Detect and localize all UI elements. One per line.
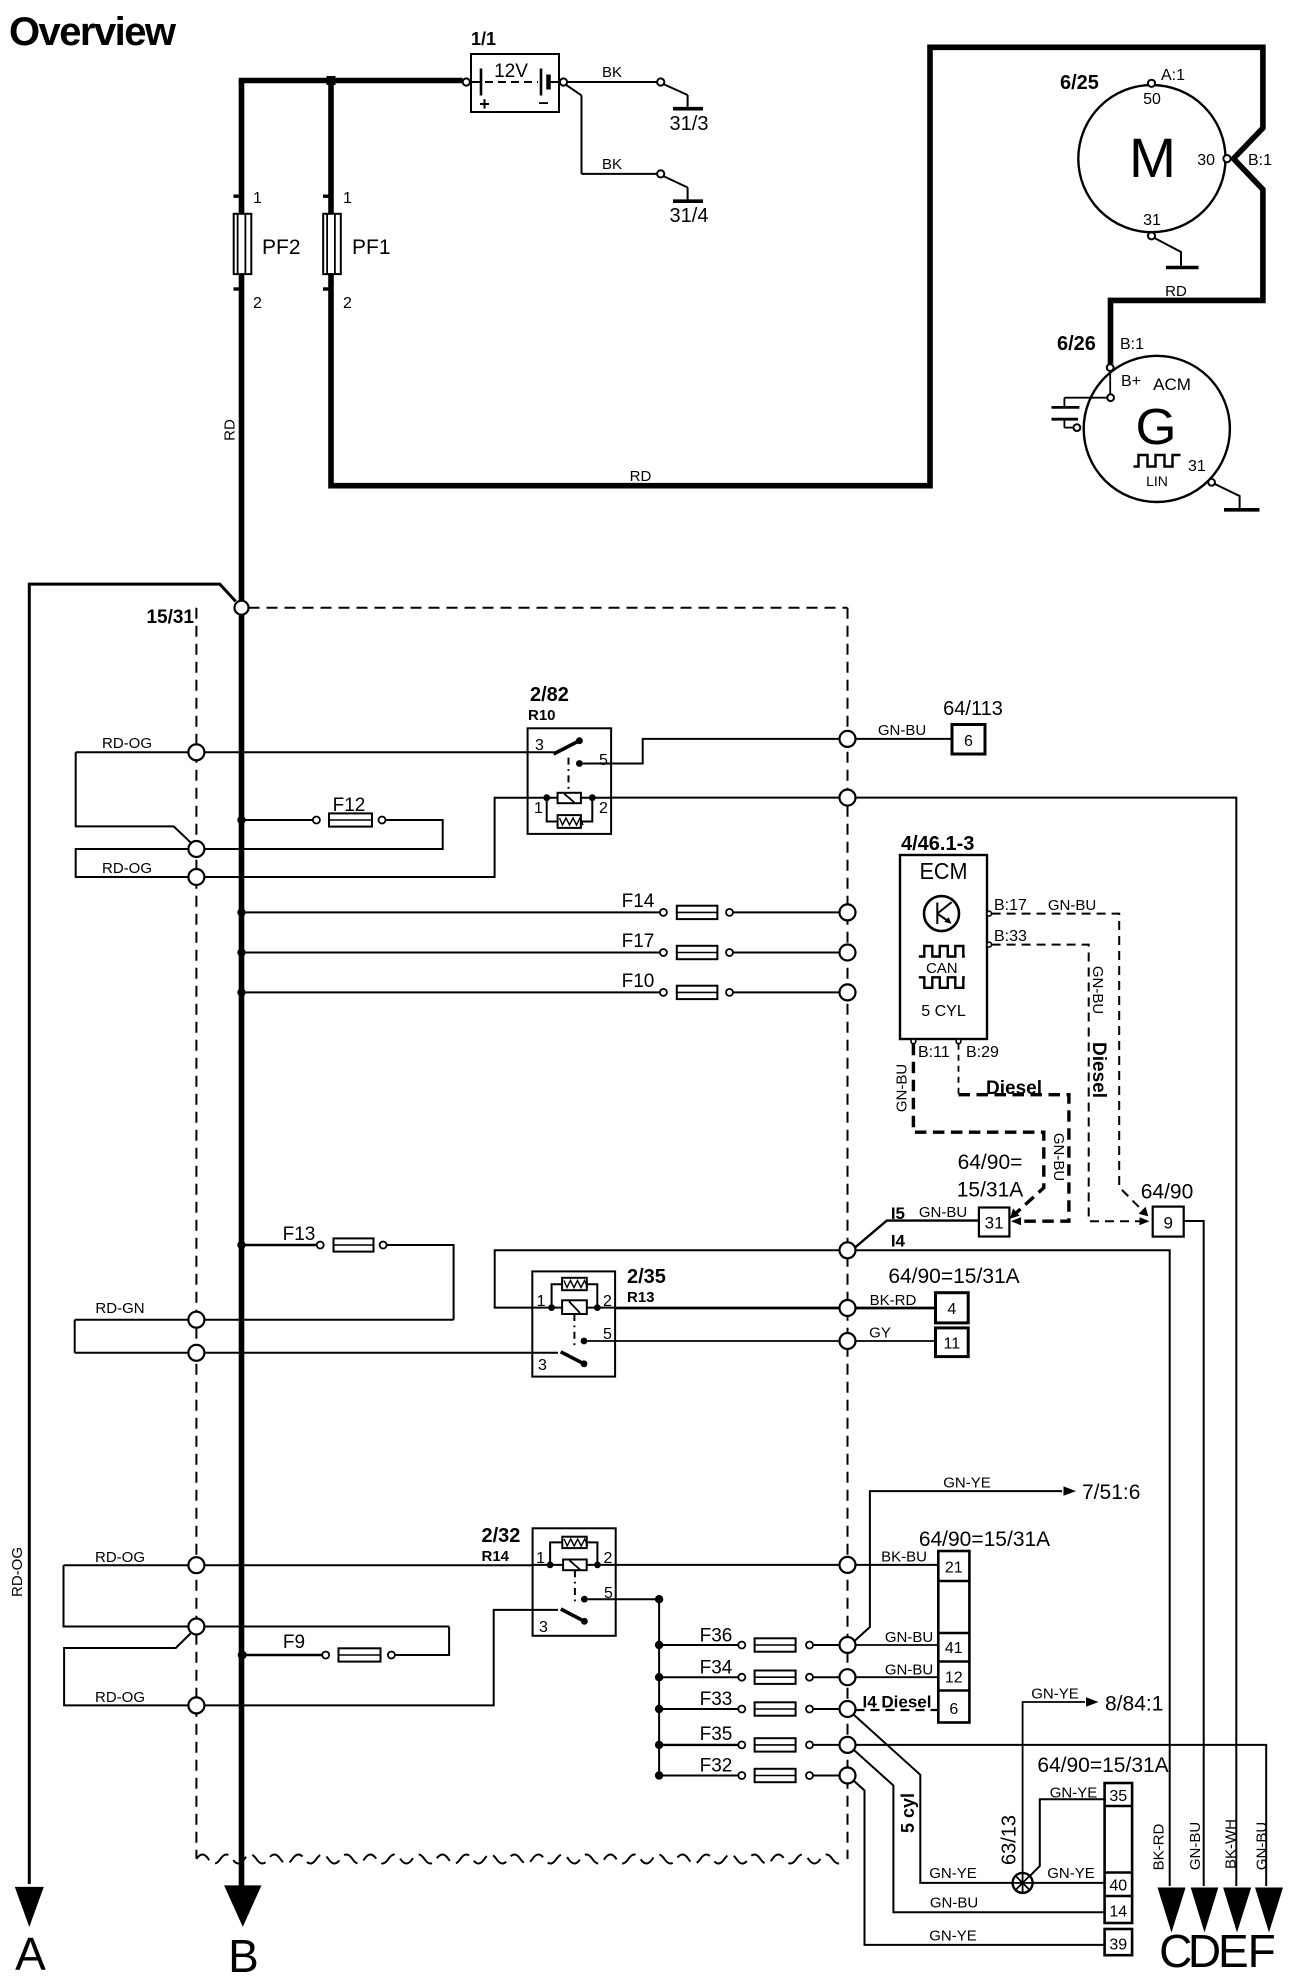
svg-text:A: A: [15, 1928, 46, 1980]
generator terminal B:1: [1107, 364, 1114, 371]
ECM CAN square wave upper: [919, 946, 965, 957]
wire relay 2/35 pin1 feed: [495, 1250, 840, 1307]
motor terminal 31: [1148, 232, 1155, 239]
node circle RD-OG lower2 on bus: [188, 1697, 204, 1713]
relay 2/82 pin 1: [528, 797, 558, 799]
svg-text:3: 3: [535, 737, 544, 754]
svg-text:GN-YE: GN-YE: [943, 1475, 991, 1492]
arrow E: [1223, 1888, 1251, 1933]
relay 2/35 actuation dash-dot: [573, 1314, 575, 1346]
wire 64/90 pin 9 to D arrow: [1184, 1221, 1204, 1886]
wire F13 feed: [242, 1244, 317, 1246]
wire GN-YE splice to connector 40: [1033, 1882, 1105, 1884]
svg-text:LIN: LIN: [1146, 473, 1168, 489]
svg-text:6/25: 6/25: [1060, 72, 1099, 94]
svg-text:15/31: 15/31: [146, 607, 194, 628]
relay 2/32 coil: [563, 1560, 587, 1571]
svg-text:F33: F33: [700, 1689, 733, 1710]
connector 64/90 pin 9: [1153, 1207, 1184, 1237]
svg-text:31: 31: [985, 1214, 1004, 1233]
node circle F32 on bus: [840, 1768, 856, 1784]
relay 2/32 actuation dash-dot: [574, 1570, 576, 1603]
generator battery symbol (ACM supply): [1064, 397, 1107, 399]
svg-text:BK-RD: BK-RD: [870, 1292, 917, 1309]
wire F9 return middle: [204, 1626, 449, 1628]
wire F9 return: [395, 1627, 449, 1656]
relay 2/82 parallel resistor: [547, 798, 593, 822]
svg-text:12: 12: [945, 1670, 963, 1687]
svg-text:RD-GN: RD-GN: [95, 1300, 144, 1317]
node circle F36 on bus: [840, 1637, 856, 1653]
svg-text:RD: RD: [630, 468, 652, 485]
ECM pin B:11: [911, 1039, 916, 1044]
svg-text:GN-YE: GN-YE: [929, 1865, 977, 1882]
wire relay 2/82 pin 2 to E arrow: [611, 798, 1236, 1886]
wire fuse stack tap vertical: [658, 1599, 660, 1775]
wire F35 to F arrow: [856, 1745, 1267, 1886]
arrow C: [1158, 1888, 1186, 1933]
svg-text:2/35: 2/35: [627, 1266, 666, 1288]
svg-text:R13: R13: [627, 1289, 655, 1306]
svg-text:41: 41: [945, 1640, 963, 1657]
arrow A: [15, 1887, 44, 1927]
svg-text:30: 30: [1197, 152, 1215, 169]
svg-text:GN-BU: GN-BU: [919, 1204, 967, 1221]
svg-text:G: G: [1136, 398, 1177, 455]
relay 2/35 pin 1: [532, 1307, 562, 1309]
svg-text:2/32: 2/32: [482, 1525, 521, 1547]
svg-text:39: 39: [1109, 1937, 1127, 1954]
node circle pin5/64-113 on bus: [840, 731, 856, 747]
svg-text:F34: F34: [700, 1658, 733, 1679]
generator ground wire: [1215, 484, 1240, 508]
wire RD-GN upper: [75, 1319, 454, 1321]
wire B:29 bold dashed Diesel to 64/90 pin 31: [959, 1095, 1069, 1222]
battery 1/1 internal plates: [470, 81, 481, 83]
node circle I4/I5 on bus: [840, 1242, 856, 1258]
ground 31/4: [673, 199, 703, 203]
generator LIN square wave: [1134, 455, 1181, 467]
wire B:11 bold dashed GN-BU to 64/90 pin 31: [913, 1044, 1043, 1216]
svg-text:RD: RD: [1165, 283, 1187, 300]
wire circle to 64/113: [856, 738, 953, 740]
svg-text:2: 2: [343, 295, 352, 312]
svg-text:4/46.1-3: 4/46.1-3: [901, 833, 974, 855]
generator G circle: [1084, 356, 1230, 502]
svg-text:1: 1: [343, 190, 352, 207]
svg-text:31/4: 31/4: [670, 205, 709, 227]
svg-text:64/90=15/31A: 64/90=15/31A: [1037, 1754, 1168, 1777]
svg-text:F35: F35: [700, 1724, 733, 1745]
svg-text:11: 11: [943, 1336, 960, 1353]
wire RD-OG 1 to relay 2/82 pin 3: [76, 751, 555, 753]
connector 39: [1105, 1929, 1133, 1955]
wire thick PF1 column upper: [328, 80, 334, 214]
wire B:17 dashed GN-BU to 64/90 pin 9: [992, 914, 1144, 1212]
svg-text:35: 35: [1109, 1788, 1127, 1805]
svg-text:M: M: [1129, 126, 1176, 189]
svg-text:B:29: B:29: [966, 1044, 999, 1061]
svg-text:+: +: [479, 94, 490, 114]
svg-text:63/13: 63/13: [999, 1815, 1021, 1865]
svg-text:D: D: [1188, 1925, 1221, 1977]
relay 2/35 box: [532, 1271, 615, 1376]
wire BK battery to 31/3: [567, 81, 657, 83]
svg-text:1: 1: [534, 800, 543, 817]
svg-text:Overview: Overview: [9, 10, 177, 54]
svg-text:5: 5: [599, 752, 608, 769]
svg-text:F9: F9: [283, 1632, 305, 1653]
wire I4 to C arrow: [856, 1250, 1170, 1886]
svg-text:RD-OG: RD-OG: [95, 1549, 145, 1566]
wire F12 feed: [242, 819, 314, 821]
svg-text:RD-OG: RD-OG: [102, 860, 152, 877]
svg-text:ECM: ECM: [920, 858, 968, 884]
junction dot F12: [237, 816, 245, 824]
svg-text:B:1: B:1: [1248, 152, 1272, 169]
node 15/31 junction circle: [235, 601, 249, 615]
wire thick PF2 column upper: [239, 80, 245, 214]
bus 15/31 dashed horizontal: [249, 607, 848, 609]
wire relay 2/82 pin 5 to 64/113: [583, 739, 840, 764]
svg-text:6: 6: [964, 733, 973, 750]
svg-text:BK: BK: [602, 64, 622, 81]
wire relay 2/32 pin 5 tap: [588, 1598, 659, 1600]
relay 2/32 pin 1: [533, 1564, 564, 1566]
svg-text:12V: 12V: [494, 61, 528, 82]
node circle GY on bus: [840, 1333, 856, 1349]
svg-text:Diesel: Diesel: [1088, 1042, 1109, 1098]
svg-text:3: 3: [538, 1357, 547, 1374]
relay 2/32 pin 2: [594, 1562, 601, 1569]
svg-text:I4 Diesel: I4 Diesel: [863, 1693, 932, 1712]
wire GN-YE F32 to connector 39: [854, 1781, 1105, 1945]
fuse PF2 pin ticks: [234, 195, 243, 198]
wire BK-BU relay 2/32 pin 2 to connector 21: [587, 1564, 939, 1566]
svg-text:F36: F36: [700, 1626, 733, 1647]
svg-text:21: 21: [945, 1560, 963, 1577]
ECM pin B:33: [987, 942, 992, 947]
relay 2/32 pin 5: [581, 1596, 588, 1603]
node circle BK-BU on bus: [840, 1557, 856, 1573]
wire GN-BU to connector 12: [856, 1676, 939, 1678]
relay 2/35 switch lever: [532, 1352, 558, 1354]
wire F10 feed: [242, 991, 660, 993]
generator B+ terminal: [1109, 371, 1111, 394]
svg-text:F32: F32: [700, 1756, 733, 1777]
wire B:33 dashed GN-BU Diesel to 64/90 pin 9: [992, 945, 1140, 1222]
svg-text:B:33: B:33: [994, 928, 1027, 945]
svg-text:BK: BK: [602, 156, 622, 173]
node circle RD-GN upper on bus: [188, 1312, 204, 1328]
connector 11: [936, 1328, 969, 1357]
relay 2/35 coil: [562, 1300, 587, 1314]
svg-text:B+: B+: [1121, 373, 1141, 390]
svg-text:1: 1: [537, 1293, 546, 1310]
svg-text:GN-BU: GN-BU: [878, 722, 926, 739]
svg-text:I4: I4: [891, 1232, 906, 1251]
svg-text:RD-OG: RD-OG: [102, 735, 152, 752]
wire RD-OG lower1 left leg: [64, 1565, 189, 1626]
relay 2/82 switch lever: [554, 741, 579, 754]
svg-text:I5: I5: [891, 1204, 905, 1223]
svg-text:40: 40: [1109, 1878, 1127, 1895]
svg-text:9: 9: [1163, 1214, 1172, 1233]
junction battery/PF1: [327, 76, 336, 85]
ECM CAN square wave lower: [919, 977, 965, 988]
fuse PF2: [234, 214, 252, 274]
svg-text:4: 4: [947, 1301, 956, 1318]
wire GN-YE splice to 8/84:1: [1023, 1702, 1085, 1873]
svg-text:3: 3: [539, 1619, 548, 1636]
svg-text:F10: F10: [622, 971, 655, 992]
ECM clock symbol: [924, 896, 959, 931]
wire RD-GN lower to relay 2/35 pin 3: [75, 1352, 533, 1354]
svg-text:64/90=15/31A: 64/90=15/31A: [888, 1265, 1019, 1288]
wire B:29 pigtail dashed: [958, 1044, 960, 1095]
svg-text:GN-BU: GN-BU: [885, 1629, 933, 1646]
svg-text:GN-BU: GN-BU: [894, 1064, 911, 1112]
svg-text:E: E: [1218, 1925, 1249, 1977]
fuse PF1 pin ticks: [323, 195, 332, 198]
svg-text:1: 1: [253, 190, 262, 207]
wire F36 feed: [659, 1644, 738, 1646]
node circle RD-OG lower1 on bus: [188, 1557, 204, 1573]
svg-text:2/82: 2/82: [530, 684, 569, 706]
wire I4 Diesel dashed to connector 6: [856, 1709, 939, 1711]
svg-text:GN-BU: GN-BU: [1187, 1822, 1204, 1870]
fuse PF1: [323, 214, 341, 274]
svg-text:BK-RD: BK-RD: [1151, 1823, 1168, 1870]
wire F35 feed: [659, 1744, 738, 1746]
wire RD-OG lower2 loop: [64, 1634, 190, 1706]
svg-text:31/3: 31/3: [670, 113, 709, 135]
wire thick PF2 column lower to 15/31: [239, 274, 245, 601]
svg-text:64/113: 64/113: [943, 698, 1003, 720]
motor terminal 30 / B:1: [1223, 155, 1230, 162]
relay 2/82 pin 5: [576, 760, 583, 767]
svg-text:GN-BU: GN-BU: [1089, 966, 1106, 1014]
relay 2/82 box: [528, 728, 612, 834]
svg-text:50: 50: [1143, 91, 1161, 108]
svg-text:GN-YE: GN-YE: [1050, 1785, 1098, 1802]
wire GN-BU to connector 41: [856, 1644, 939, 1646]
ECM pin B:17: [987, 911, 992, 916]
svg-text:8/84:1: 8/84:1: [1105, 1693, 1163, 1716]
svg-text:GN-BU: GN-BU: [1253, 1822, 1270, 1870]
svg-text:F: F: [1248, 1925, 1276, 1977]
wire thick motor notch to generator: [1111, 45, 1263, 364]
wire RD-OG 2 loop: [76, 849, 190, 877]
ECM box: [900, 855, 987, 1039]
svg-text:1: 1: [536, 1550, 545, 1567]
relay 2/82 actuation dash-dot: [568, 758, 570, 793]
svg-text:R10: R10: [528, 707, 556, 724]
wire BK-RD relay 2/35 pin 2 to connector 4: [615, 1307, 935, 1310]
svg-text:GN-YE: GN-YE: [1047, 1865, 1095, 1882]
wire BK battery to 31/4: [566, 85, 582, 96]
motor terminal 50 / A:1: [1148, 80, 1155, 87]
wire GY relay 2/35 pin 5 to connector 11: [587, 1340, 935, 1342]
node circle F9 return on bus: [188, 1619, 204, 1635]
wire F33 feed: [659, 1708, 738, 1710]
node circle RD-GN lower on bus: [188, 1345, 204, 1361]
svg-text:RD-OG: RD-OG: [95, 1689, 145, 1706]
svg-text:B: B: [228, 1930, 259, 1980]
svg-text:BK-BU: BK-BU: [881, 1549, 927, 1566]
arrow D: [1191, 1888, 1219, 1933]
connector 4: [936, 1293, 969, 1323]
wire F9 feed: [242, 1654, 322, 1656]
svg-text:R14: R14: [482, 1548, 510, 1565]
relay 2/82 coil: [558, 793, 581, 803]
bus 15/31 wavy bottom: [196, 1855, 844, 1864]
svg-text:GN-BU: GN-BU: [1050, 1133, 1067, 1181]
ground 31/3: [673, 107, 703, 111]
relay 2/35 pin 2: [587, 1307, 615, 1309]
svg-text:F13: F13: [283, 1224, 316, 1245]
wire thick PF1 column to generator loop: [331, 47, 1263, 485]
svg-text:RD-OG: RD-OG: [9, 1547, 26, 1597]
wire GN-YE to 7/51:6: [855, 1491, 1062, 1640]
wire F17 to bus: [733, 952, 840, 954]
svg-text:2: 2: [599, 800, 608, 817]
relay 2/82 pin 2: [581, 797, 611, 799]
relay 2/35 resistor: [562, 1278, 587, 1290]
ECM pin B:29: [956, 1039, 961, 1044]
connector block 21/41/12/6: [938, 1551, 969, 1723]
svg-text:F17: F17: [622, 931, 655, 952]
wire F32 feed: [659, 1775, 738, 1777]
svg-text:GN-BU: GN-BU: [930, 1895, 978, 1912]
motor ground: [1166, 266, 1199, 270]
svg-text:CAN: CAN: [926, 960, 958, 977]
wire F14 feed: [242, 911, 660, 913]
svg-text:B:1: B:1: [1120, 336, 1144, 353]
svg-text:64/90=: 64/90=: [958, 1151, 1023, 1174]
wire thick battery feed top: [242, 81, 463, 84]
svg-text:GN-YE: GN-YE: [929, 1928, 977, 1945]
node circle RD-OG 1 on bus: [188, 744, 204, 760]
node circle F33 on bus: [840, 1701, 856, 1717]
wire I5 to pin 31: [855, 1221, 979, 1248]
svg-text:15/31A: 15/31A: [957, 1179, 1024, 1202]
motor M circle: [1078, 85, 1225, 232]
wire F14 to bus: [733, 911, 840, 913]
svg-text:31: 31: [1143, 212, 1161, 229]
node circle F35 on bus: [840, 1737, 856, 1753]
svg-text:ACM: ACM: [1153, 375, 1191, 394]
svg-text:1/1: 1/1: [471, 29, 496, 49]
svg-text:BK-WH: BK-WH: [1223, 1819, 1240, 1869]
wire F13 to RD-GN loop: [387, 1245, 454, 1320]
wire RD-OG lower1 to relay 2/32 pin 1: [64, 1564, 533, 1566]
svg-text:F14: F14: [622, 891, 655, 912]
svg-text:7/51:6: 7/51:6: [1082, 1481, 1140, 1504]
svg-text:GN-BU: GN-BU: [885, 1662, 933, 1679]
svg-text:6: 6: [949, 1701, 958, 1718]
wire GN-BU F35 to connector 14: [855, 1751, 1105, 1913]
generator terminal 31: [1208, 479, 1215, 486]
splice 63/13: [1013, 1873, 1033, 1893]
connector block 35/40/14: [1105, 1783, 1133, 1923]
svg-text:–: –: [538, 92, 548, 112]
bus 15/31 dashed vertical right: [847, 608, 849, 1859]
svg-text:GN-YE: GN-YE: [1031, 1686, 1079, 1703]
connector 64/90 pin 31: [979, 1208, 1010, 1237]
wire RD-GN left leg: [74, 1320, 76, 1353]
svg-text:RD: RD: [222, 419, 239, 441]
relay 2/35 pin 5: [581, 1338, 588, 1345]
svg-text:2: 2: [603, 1293, 612, 1310]
node circle BK-RD on bus: [840, 1300, 856, 1316]
wire relay 2/82 pin 1 feed: [204, 798, 528, 877]
node circle pin2 long wire on bus: [840, 790, 856, 806]
motor ground wire: [1155, 238, 1182, 266]
svg-text:5 CYL: 5 CYL: [921, 1003, 966, 1020]
generator ground: [1224, 508, 1260, 512]
svg-text:GY: GY: [869, 1325, 891, 1342]
relay 2/32 switch lever: [533, 1609, 558, 1611]
svg-text:B:17: B:17: [994, 897, 1027, 914]
wire 5 cyl GN-YE F33 to splice: [854, 1715, 1013, 1883]
wire B column lower + arrow B: [239, 614, 245, 1888]
battery 1/1 box: [471, 54, 559, 112]
battery terminal circles: [463, 78, 470, 85]
node circle F34 on bus: [840, 1669, 856, 1685]
svg-text:PF1: PF1: [352, 236, 391, 259]
svg-text:64/90=15/31A: 64/90=15/31A: [919, 1528, 1050, 1551]
relay 2/32 resistor: [562, 1537, 586, 1548]
arrow F: [1255, 1888, 1283, 1933]
relay 2/32 box: [533, 1528, 616, 1636]
svg-text:6/26: 6/26: [1057, 333, 1096, 355]
svg-text:GN-BU: GN-BU: [1048, 897, 1096, 914]
wire A-line left: [29, 584, 235, 1884]
wire F17 feed: [242, 952, 660, 954]
svg-text:5 cyl: 5 cyl: [898, 1793, 918, 1833]
wire RD-OG lower2 to relay 2/32 pin 3: [204, 1610, 533, 1706]
svg-text:PF2: PF2: [262, 236, 301, 259]
svg-text:A:1: A:1: [1161, 67, 1185, 84]
svg-text:2: 2: [253, 295, 262, 312]
node circle RD-OG 2 on bus: [188, 869, 204, 885]
svg-text:64/90: 64/90: [1141, 1181, 1194, 1204]
wire F34 feed: [659, 1676, 738, 1678]
wire F10 to bus: [733, 991, 840, 993]
wire RD-OG 1 left leg: [76, 752, 191, 843]
wire F12 return: [204, 820, 443, 849]
svg-text:31: 31: [1188, 458, 1206, 475]
node circle F12 return on bus: [188, 841, 204, 857]
svg-text:B:11: B:11: [918, 1044, 950, 1061]
svg-text:14: 14: [1109, 1904, 1127, 1921]
bus 15/31 dashed vertical left: [195, 608, 197, 1859]
wire GN-YE splice to connector 35: [1030, 1799, 1105, 1876]
